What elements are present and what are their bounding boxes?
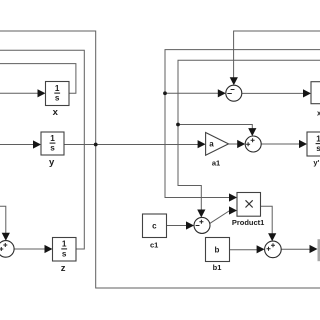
wire c1 to S4 — [167, 225, 188, 227]
arrow into sum S4 top — [197, 210, 205, 218]
wire A from right edge into sum S2 top — [234, 31, 320, 78]
arrow into out port — [310, 245, 318, 253]
svg-text:a1: a1 — [212, 158, 220, 167]
integrator y' 1/s (clipped) — [316, 134, 320, 153]
svg-text:s: s — [55, 94, 60, 103]
sum S2 — [226, 85, 242, 101]
arrow into sum S2 left — [218, 89, 226, 97]
wire product output down to S5 — [261, 206, 273, 234]
integrator y' block (clipped) — [307, 132, 320, 156]
out port (clipped grey) — [318, 239, 320, 261]
integrator y 1/s — [50, 134, 56, 153]
sum S5 — [265, 241, 282, 258]
arrow into sum S1 top — [2, 233, 10, 241]
arrow into product upper input — [229, 193, 237, 201]
arrow into gain a1 — [198, 140, 206, 148]
arrow into sum S5 left — [257, 245, 265, 253]
wire x-input — [0, 92, 38, 94]
arrow into sum S2 top — [230, 77, 238, 85]
svg-text:1: 1 — [62, 240, 67, 249]
wire S4 diagonal to product lower input — [210, 211, 230, 224]
svg-text:b1: b1 — [213, 263, 222, 272]
svg-text:s: s — [316, 144, 320, 153]
arrow into integrator x — [38, 89, 46, 97]
svg-text:s: s — [62, 250, 67, 259]
arrow into integrator x' — [303, 89, 311, 97]
arrow into integrator y' — [299, 140, 307, 148]
svg-text:y: y — [49, 157, 55, 168]
integrator x 1/s — [54, 84, 60, 103]
product X symbol — [246, 200, 253, 207]
svg-text:s: s — [50, 144, 55, 153]
svg-text:z: z — [61, 263, 66, 274]
svg-text:1: 1 — [50, 134, 55, 143]
wire into sum S1 from left edge — [0, 206, 6, 234]
wire a1 to S3 — [229, 143, 239, 145]
wire x feedback loop — [0, 64, 76, 94]
integrator y block — [41, 132, 64, 155]
junction dot wire C — [176, 123, 180, 127]
junction dot y-branch — [94, 143, 98, 147]
wire S2 output to x' — [242, 92, 304, 94]
sum S1 — [0, 241, 14, 258]
constant b block — [206, 238, 230, 262]
svg-text:a: a — [209, 139, 214, 148]
wire B right edge down to product upper input — [165, 50, 320, 198]
svg-text:x: x — [53, 107, 59, 118]
wire S3 output to y' — [261, 143, 300, 145]
arrow into integrator z — [45, 245, 53, 253]
wire B branch into sum S2 left — [165, 92, 219, 94]
constant c block — [143, 214, 167, 238]
sum S3 — [245, 136, 261, 152]
integrator x block — [46, 82, 70, 106]
wire y-input — [0, 144, 34, 146]
junction dot wire B — [163, 91, 167, 95]
arrow into sum S3 top — [248, 128, 256, 136]
wire y-output to gain a1 — [64, 144, 199, 146]
svg-text:b: b — [215, 246, 220, 255]
sum S4 — [194, 217, 210, 233]
integrator x' block (clipped) — [311, 82, 320, 104]
arrow into integrator y — [33, 140, 41, 148]
gain a1 triangle — [206, 133, 229, 156]
arrow into sum S5 top — [268, 233, 276, 241]
wire C right edge down, corners to sum S4 top — [178, 60, 320, 210]
wire S5 output to out — [281, 248, 310, 250]
integrator z 1/s — [61, 240, 67, 259]
arrow into sum S3 left — [237, 140, 245, 148]
svg-text:c1: c1 — [150, 240, 158, 249]
arrow into sum S4 left — [186, 221, 194, 229]
wire S1 to integrator z — [14, 248, 45, 250]
svg-text:1: 1 — [55, 84, 60, 93]
wire z-output up-left — [0, 50, 84, 249]
svg-text:y': y' — [313, 158, 319, 167]
svg-text:1: 1 — [316, 134, 320, 143]
svg-text:Product1: Product1 — [232, 218, 265, 227]
arrow into product lower input — [229, 206, 237, 214]
svg-text:c: c — [152, 221, 157, 230]
integrator z block — [53, 238, 77, 262]
product Product1 block — [237, 193, 261, 217]
wire b1 to S5 — [230, 249, 258, 251]
wire C branch into sum S3 top — [178, 125, 252, 130]
